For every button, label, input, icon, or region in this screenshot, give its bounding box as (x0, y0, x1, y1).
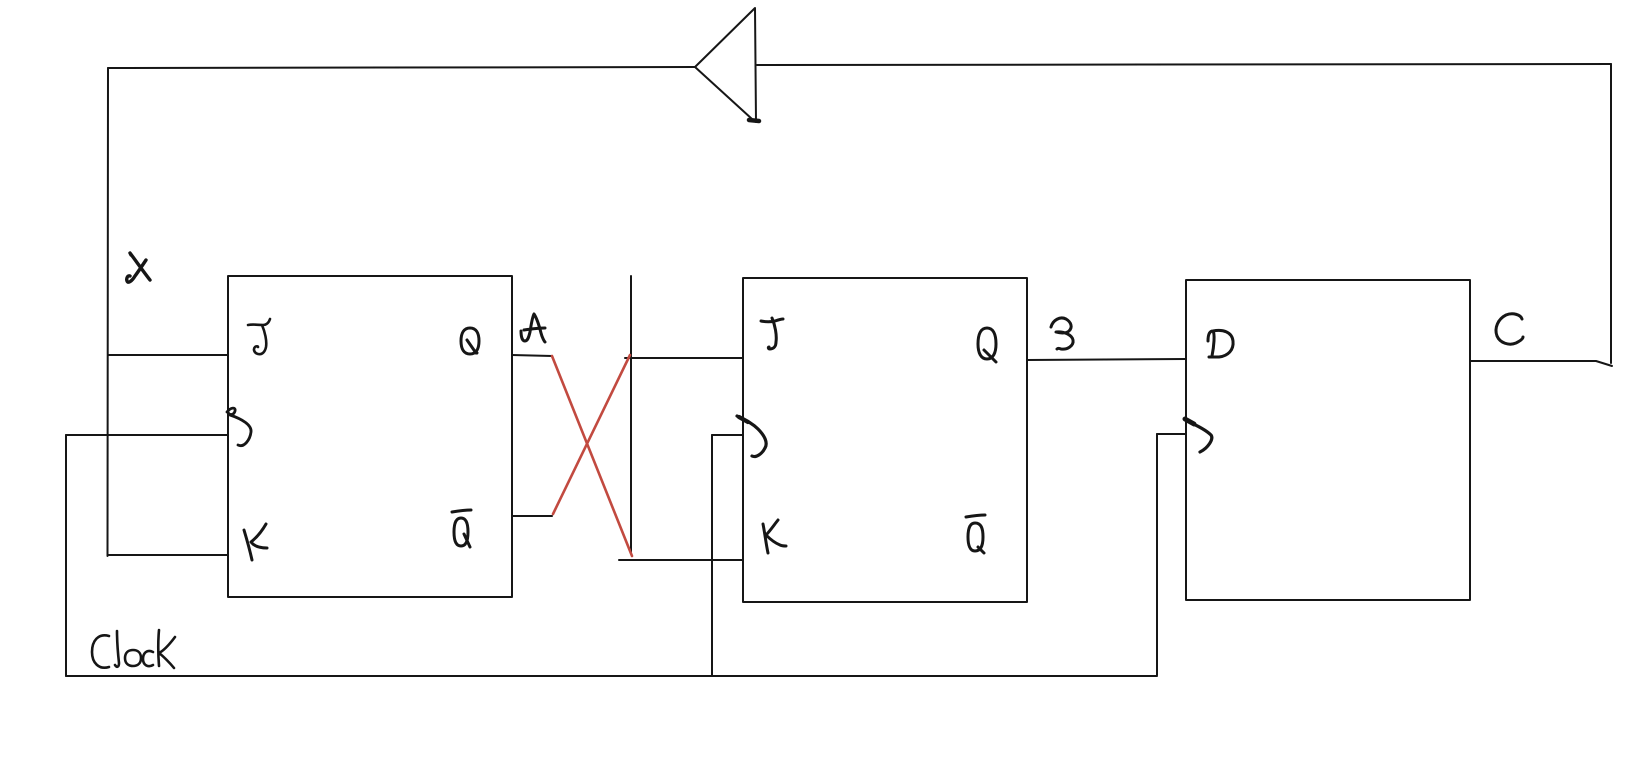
wire: net B from U2 Q to U3 D (1027, 359, 1186, 360)
wire: clock bus bottom (66, 675, 1157, 677)
flip-flop U1 box (JK) (228, 276, 512, 597)
label Q (U2) (978, 328, 996, 362)
label Qbar (U1) (452, 510, 471, 547)
wire: J input of U1 (108, 354, 228, 356)
label X (127, 253, 150, 282)
label K (U2) (763, 520, 786, 553)
wire: Q output of U1 (512, 355, 552, 356)
wire: K input of U2 (619, 559, 743, 561)
wire: net X left vertical (107, 68, 110, 556)
red crossover stroke A-to-K (552, 356, 632, 556)
label K (U1) (244, 524, 267, 560)
label B (net) (1051, 318, 1073, 349)
flip-flop U2 box (JK) (743, 278, 1027, 602)
pen blob on U3 chevron (1185, 419, 1194, 424)
wire: J input of U2 (625, 357, 743, 359)
inverter (triangle buffer) (695, 8, 756, 122)
label J (U2) (761, 318, 783, 349)
label Qbar (U2) (966, 515, 985, 553)
wire: clock into U2 (712, 434, 743, 436)
wire: clock into U3 (1157, 433, 1186, 435)
clock chevron of U2 (737, 416, 766, 457)
wire: clock left vertical (65, 435, 67, 676)
wire: right feedback vertical (1610, 64, 1612, 363)
label D (U3) (1208, 330, 1233, 357)
red crossover stroke Qbar-to-J (553, 355, 630, 514)
label C (net) (1496, 314, 1523, 344)
flip-flop U3 box (D) (1186, 280, 1470, 600)
node: vertical bar between U1 and U2 (630, 276, 632, 552)
wire: clock into U1 (66, 434, 228, 436)
wire: Qbar output of U1 (512, 515, 552, 517)
wire: inverter output to top-right (757, 64, 1611, 65)
clock chevron of U3 (1187, 421, 1212, 452)
label Q (U1) (461, 328, 479, 354)
wire: C output from U3 (1470, 361, 1612, 366)
inverter pen blob (749, 120, 759, 121)
wire: clock vertical to U3 (1156, 434, 1158, 675)
label J (U1) (248, 319, 270, 354)
wire: top feedback horizontal to inverter (108, 67, 695, 68)
pen blob on U2 chevron (739, 417, 748, 422)
wire: clock vertical to U2 (711, 435, 713, 676)
clock chevron of U1 (227, 408, 251, 446)
label Clock (92, 630, 175, 668)
wire: K input of U1 (108, 554, 228, 556)
label A (net) (521, 314, 545, 342)
